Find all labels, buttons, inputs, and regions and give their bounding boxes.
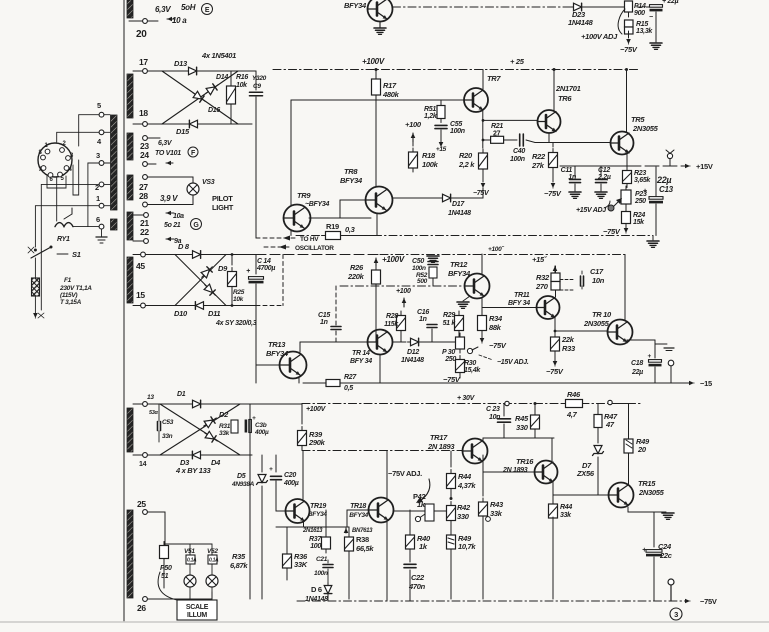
svg-text:1k: 1k bbox=[419, 542, 428, 551]
pin 26 bbox=[137, 597, 190, 613]
svg-text:100n: 100n bbox=[510, 156, 525, 163]
transistor TR19 bbox=[286, 499, 328, 523]
svg-text:TO HV: TO HV bbox=[300, 236, 319, 243]
ground under top transistor bbox=[374, 22, 386, 35]
resistor R27 0.5 bbox=[322, 374, 357, 392]
svg-text:250: 250 bbox=[444, 356, 456, 363]
svg-text:115k: 115k bbox=[384, 321, 399, 328]
wire R34 to -75V bbox=[480, 331, 507, 350]
pin 20 terminal bbox=[129, 19, 158, 24]
terminal sec2 bbox=[668, 360, 674, 383]
svg-text:1n: 1n bbox=[320, 319, 328, 326]
svg-text:88k: 88k bbox=[489, 323, 502, 332]
svg-text:VS3: VS3 bbox=[202, 179, 215, 186]
svg-text:4N938A: 4N938A bbox=[231, 481, 255, 488]
svg-text:10n: 10n bbox=[489, 414, 500, 421]
wire TR7 collector up bbox=[482, 70, 484, 90]
transistor TR18 bbox=[349, 498, 393, 523]
svg-text:6,3V: 6,3V bbox=[158, 140, 173, 147]
connector hatched strip 2 bbox=[127, 74, 133, 118]
wire R24 to -75V bbox=[603, 224, 628, 236]
svg-text:D15: D15 bbox=[176, 127, 190, 136]
svg-text:C40: C40 bbox=[513, 148, 525, 155]
svg-text:900: 900 bbox=[634, 10, 645, 17]
svg-text:18: 18 bbox=[139, 108, 148, 118]
svg-text:P50: P50 bbox=[160, 565, 172, 572]
transistor TR8 bbox=[340, 167, 393, 214]
transistor TR16 bbox=[502, 457, 558, 484]
diode D14 bbox=[204, 74, 229, 96]
svg-text:14: 14 bbox=[139, 461, 147, 468]
svg-text:TR7: TR7 bbox=[487, 74, 501, 83]
svg-text:R30: R30 bbox=[464, 360, 476, 367]
svg-text:230V T1,1A: 230V T1,1A bbox=[59, 285, 92, 292]
wire TR9 emitter bbox=[291, 230, 325, 236]
svg-text:33n: 33n bbox=[162, 433, 173, 440]
svg-text:P23: P23 bbox=[635, 191, 647, 198]
svg-text:+100ˇ: +100ˇ bbox=[488, 245, 504, 253]
svg-text:1,2k: 1,2k bbox=[424, 113, 438, 120]
svg-text:TR12: TR12 bbox=[450, 260, 468, 269]
wire lamps join bbox=[190, 592, 212, 599]
wire sec3 links bbox=[304, 521, 388, 601]
svg-text:13: 13 bbox=[147, 394, 154, 401]
label 2N labels bbox=[302, 528, 373, 534]
svg-text:TR8: TR8 bbox=[344, 167, 358, 176]
TO HV arrow bbox=[256, 236, 319, 244]
resistor R15 13.3k bbox=[625, 20, 654, 35]
svg-text:G: G bbox=[193, 222, 199, 229]
transistor TR12 bbox=[448, 260, 490, 299]
terminal pins 1-6 bbox=[95, 101, 110, 208]
label +25V bbox=[510, 57, 525, 66]
svg-text:13,3k: 13,3k bbox=[636, 28, 653, 35]
svg-text:R42: R42 bbox=[457, 503, 471, 512]
+15V output wire bbox=[627, 162, 713, 171]
transistor TR17 bbox=[427, 433, 488, 464]
svg-text:S1: S1 bbox=[72, 250, 81, 259]
ground sec1 rail bbox=[647, 236, 659, 248]
section3 top rail bbox=[302, 403, 640, 405]
svg-text:100n: 100n bbox=[314, 570, 328, 577]
svg-text:C 14: C 14 bbox=[257, 258, 271, 265]
wire P14 to R15 bbox=[628, 12, 630, 17]
transistor TR5 bbox=[611, 115, 659, 155]
bridge3 diagonal b bbox=[160, 404, 240, 455]
svg-text:−75V: −75V bbox=[700, 597, 717, 606]
svg-text:4x 1N5401: 4x 1N5401 bbox=[201, 51, 236, 60]
svg-text:TO V101: TO V101 bbox=[155, 150, 181, 157]
wire TR18 base bbox=[347, 510, 369, 527]
wire out node bbox=[560, 165, 627, 167]
transistor TR11 bbox=[482, 292, 560, 319]
zener D7 bbox=[576, 446, 604, 496]
svg-text:BFY 34: BFY 34 bbox=[508, 300, 530, 307]
wire top rail to D23 bbox=[393, 6, 572, 8]
svg-text:D 6: D 6 bbox=[311, 585, 322, 594]
resistor R23 3.65k bbox=[623, 166, 652, 188]
svg-text:26: 26 bbox=[137, 603, 146, 613]
cap C14 4700u bbox=[246, 255, 275, 306]
label +100V arrow sec2 bbox=[396, 288, 411, 307]
svg-text:+100: +100 bbox=[405, 120, 422, 129]
label -15V ADJ bbox=[479, 355, 529, 366]
svg-text:R35: R35 bbox=[232, 552, 246, 561]
resistor R18 100k bbox=[409, 142, 439, 172]
svg-text:330: 330 bbox=[457, 512, 470, 521]
svg-text:T 3,15A: T 3,15A bbox=[60, 299, 82, 306]
section2 top rail bbox=[256, 254, 625, 256]
svg-text:1N4148: 1N4148 bbox=[401, 357, 424, 364]
svg-text:R45: R45 bbox=[515, 414, 529, 423]
svg-text:+ 25: + 25 bbox=[510, 57, 525, 66]
transistor TR14 bbox=[350, 330, 393, 366]
wire R15 to -75V arrow bbox=[626, 31, 631, 44]
svg-text:1N4148: 1N4148 bbox=[448, 210, 471, 217]
svg-text:22: 22 bbox=[140, 227, 149, 237]
svg-text:24: 24 bbox=[140, 150, 149, 160]
lamp top wire bbox=[164, 543, 212, 545]
pot P23 250 bbox=[608, 186, 647, 211]
svg-text:270: 270 bbox=[535, 282, 549, 291]
resistor R19 0.3 bbox=[322, 222, 356, 240]
oscillator arrow bbox=[264, 245, 334, 253]
svg-text:E: E bbox=[205, 7, 210, 14]
svg-text:10 a: 10 a bbox=[172, 16, 187, 25]
svg-text:−75V: −75V bbox=[603, 227, 621, 236]
svg-text:TR11: TR11 bbox=[514, 292, 530, 299]
cap C18 22u bbox=[631, 353, 662, 383]
pot P14 900 bbox=[625, 1, 646, 17]
cap C21b 100n bbox=[314, 556, 333, 582]
transistor TR13 bbox=[266, 340, 307, 379]
resistor R20 2.2k bbox=[458, 111, 488, 173]
resistor R22 27k bbox=[531, 149, 558, 172]
svg-text:~BFY34: ~BFY34 bbox=[305, 201, 329, 208]
bridge3 to rail wire bbox=[250, 403, 302, 405]
svg-text:TR9: TR9 bbox=[297, 191, 311, 200]
wire sec3 mid bbox=[450, 530, 452, 533]
resistor R51 1.2k bbox=[424, 102, 445, 123]
transistor TR9 bbox=[284, 191, 330, 232]
connector hatched strip 6 bbox=[127, 257, 133, 303]
svg-text:4x SY 320/0,3: 4x SY 320/0,3 bbox=[215, 320, 257, 327]
cap C23 10n bbox=[486, 401, 537, 438]
wire R26 down bbox=[375, 284, 377, 342]
svg-text:33k: 33k bbox=[490, 509, 503, 518]
svg-text:TR19: TR19 bbox=[310, 503, 326, 510]
svg-text:2,2 k: 2,2 k bbox=[458, 160, 475, 169]
cap C9 bbox=[250, 71, 267, 96]
svg-text:BN7613: BN7613 bbox=[352, 528, 373, 534]
pin 17 bbox=[133, 57, 148, 73]
svg-text:BFY34: BFY34 bbox=[340, 176, 363, 185]
cap C12 2.2u bbox=[595, 166, 611, 198]
svg-text:28: 28 bbox=[139, 191, 148, 201]
wire TR18 collector bbox=[386, 451, 388, 499]
resistor R44b 33k bbox=[549, 495, 573, 599]
label +30V bbox=[306, 395, 476, 413]
cap C13 22u bbox=[643, 167, 674, 236]
svg-text:C12: C12 bbox=[598, 167, 610, 174]
label 4xBY133 bbox=[175, 466, 212, 475]
bridge2 diagonal a bbox=[175, 255, 226, 306]
svg-text:5oH: 5oH bbox=[181, 3, 196, 12]
wire TR5 base bbox=[526, 133, 611, 143]
svg-text:45: 45 bbox=[136, 261, 145, 271]
resistor R46 4.7 bbox=[562, 390, 629, 439]
diode D10 bbox=[174, 302, 207, 318]
transistor TR10 bbox=[583, 310, 633, 345]
svg-text:100n: 100n bbox=[412, 265, 426, 272]
svg-text:+: + bbox=[252, 415, 256, 422]
wire TR10 emitter bbox=[627, 340, 674, 358]
svg-text:22µ: 22µ bbox=[631, 369, 643, 376]
resistor R47 47 bbox=[594, 404, 618, 444]
svg-text:−: − bbox=[649, 14, 653, 21]
resistor R42 330 bbox=[447, 497, 471, 533]
svg-text:R34: R34 bbox=[489, 314, 503, 323]
resistor R50 51 bbox=[160, 542, 172, 589]
connector hatched strip 8 bbox=[127, 510, 133, 598]
resistor R21 27 bbox=[483, 123, 504, 143]
wire TR6 emitter to R22 bbox=[552, 143, 554, 148]
svg-text:BFY34: BFY34 bbox=[448, 269, 471, 278]
connector hatched strip 5 bbox=[127, 212, 133, 240]
TR12 base rail bbox=[340, 285, 464, 287]
label VS3 lamp bbox=[187, 179, 215, 195]
wire TR19 collector bbox=[302, 451, 304, 500]
svg-text:P 30: P 30 bbox=[442, 349, 455, 356]
svg-text:+: + bbox=[648, 353, 652, 360]
svg-text:3,65k: 3,65k bbox=[634, 177, 651, 184]
wire D23 to P14 bbox=[585, 6, 624, 8]
wire TR15 emitter bbox=[628, 507, 654, 547]
wire R19 to TR8 bbox=[309, 213, 379, 236]
cap C55 100n bbox=[435, 121, 465, 135]
wire TR13 emitter bbox=[298, 377, 300, 383]
label -75V top bbox=[620, 45, 638, 54]
svg-text:22µ: 22µ bbox=[656, 175, 671, 185]
svg-text:22k: 22k bbox=[561, 335, 575, 344]
lamp V52 bbox=[206, 544, 219, 592]
connector hatched strip 3 bbox=[127, 133, 133, 160]
wire TR8 base bbox=[340, 200, 366, 218]
resistor R38 66.5k bbox=[345, 527, 375, 599]
diode D15 bbox=[176, 120, 201, 136]
svg-text:TR 14: TR 14 bbox=[352, 350, 370, 357]
wire TR6 collector bbox=[553, 68, 556, 111]
transistor TR16b wire bbox=[379, 355, 381, 384]
svg-text:5o 21: 5o 21 bbox=[164, 222, 181, 229]
svg-text:+100: +100 bbox=[396, 288, 411, 295]
svg-text:TR18: TR18 bbox=[350, 503, 366, 510]
diode D2 bbox=[202, 410, 229, 429]
label 4x SY320 bbox=[215, 320, 257, 327]
resistor R31 33k bbox=[219, 420, 238, 437]
svg-text:BFY34: BFY34 bbox=[344, 1, 367, 10]
svg-text:R43: R43 bbox=[490, 500, 504, 509]
wire TR13 base bbox=[256, 306, 280, 384]
svg-text:480k: 480k bbox=[382, 90, 400, 99]
svg-text:LIGHT: LIGHT bbox=[212, 203, 234, 212]
svg-text:47: 47 bbox=[605, 420, 615, 429]
bridge1 diagonal b bbox=[162, 71, 238, 124]
svg-text:220k: 220k bbox=[347, 272, 365, 281]
svg-text:−75V: −75V bbox=[473, 190, 490, 197]
svg-text:1n: 1n bbox=[568, 174, 576, 181]
label +15V sec2 bbox=[532, 255, 557, 274]
transistor TR15 bbox=[609, 479, 665, 508]
diode D13 bbox=[174, 59, 201, 75]
diode D11 bbox=[202, 282, 220, 318]
wire TR9 base column bbox=[290, 100, 292, 206]
svg-text:R44: R44 bbox=[560, 504, 572, 511]
svg-text:C 23: C 23 bbox=[486, 406, 500, 413]
svg-text:22c: 22c bbox=[659, 551, 673, 560]
svg-text:C11: C11 bbox=[561, 167, 573, 174]
cap C24 22u bbox=[642, 542, 673, 601]
bridge3 diagonal a bbox=[160, 404, 240, 455]
bottom scan line bbox=[0, 621, 769, 623]
svg-text:2N 1893: 2N 1893 bbox=[427, 442, 455, 451]
wire TR16 collector bbox=[551, 438, 553, 461]
svg-text:+ 22µ: + 22µ bbox=[662, 0, 679, 5]
pin 18 bbox=[133, 108, 148, 126]
svg-text:25: 25 bbox=[137, 499, 146, 509]
svg-text:33k: 33k bbox=[560, 512, 572, 519]
label +15V ADJ bbox=[576, 201, 610, 214]
bridge2 top wire bbox=[145, 253, 256, 256]
terminal sec3 bbox=[668, 579, 674, 601]
wire TR11 col emi bbox=[554, 290, 557, 337]
svg-text:2,2µ: 2,2µ bbox=[597, 174, 611, 181]
svg-text:F1: F1 bbox=[64, 277, 72, 284]
svg-text:R27: R27 bbox=[344, 374, 357, 381]
+100V rail bbox=[273, 69, 640, 71]
label +100V rail bbox=[362, 57, 385, 66]
transistor TR6 bbox=[538, 84, 581, 133]
bridge2 diagonal b bbox=[175, 255, 226, 306]
ground top right bbox=[650, 12, 662, 49]
svg-text:2N 1893: 2N 1893 bbox=[502, 467, 528, 474]
svg-text:6: 6 bbox=[96, 215, 100, 224]
svg-text:+15V: +15V bbox=[696, 162, 713, 171]
diode D17 bbox=[393, 188, 483, 217]
pin 14 bbox=[133, 453, 147, 468]
wire R51 top bbox=[440, 100, 442, 106]
label -75V sec1a bbox=[473, 190, 490, 197]
svg-text:BFY34: BFY34 bbox=[266, 349, 289, 358]
section3 left vertical bbox=[249, 404, 251, 599]
resistor R52 500 bbox=[416, 267, 437, 286]
svg-text:TR16: TR16 bbox=[516, 457, 534, 466]
svg-text:ZX56: ZX56 bbox=[576, 469, 595, 478]
label R35 6.87k bbox=[230, 552, 248, 570]
svg-text:1n: 1n bbox=[419, 316, 427, 323]
svg-text:R17: R17 bbox=[383, 81, 397, 90]
svg-text:100k: 100k bbox=[422, 160, 439, 169]
connector hatched strip 7 bbox=[127, 408, 133, 452]
svg-text:D2: D2 bbox=[219, 410, 229, 419]
resistor R32 270 bbox=[535, 266, 560, 291]
svg-text:(115V): (115V) bbox=[60, 292, 77, 299]
label 10a 5a 21 G 9a bbox=[164, 211, 202, 245]
svg-text:R32: R32 bbox=[536, 273, 550, 282]
svg-text:BFY34: BFY34 bbox=[349, 512, 368, 519]
fuse F1 bbox=[32, 250, 93, 318]
svg-text:66,5k: 66,5k bbox=[356, 544, 374, 553]
switch S1 bbox=[28, 246, 81, 260]
svg-text:−75V: −75V bbox=[546, 367, 564, 376]
svg-text:C13: C13 bbox=[659, 185, 674, 194]
resistor R33 22k bbox=[551, 333, 576, 355]
svg-text:10k: 10k bbox=[233, 296, 244, 303]
svg-text:400µ: 400µ bbox=[283, 480, 299, 487]
diode D12 bbox=[393, 338, 456, 364]
svg-text:4,7: 4,7 bbox=[566, 410, 578, 419]
svg-text:C9: C9 bbox=[253, 83, 261, 90]
sec3 node wire bbox=[483, 438, 554, 442]
label 4x 1N5401 bbox=[201, 51, 236, 60]
resistor R44 4.37k bbox=[447, 451, 477, 498]
svg-text:ILLUM: ILLUM bbox=[187, 612, 207, 619]
svg-text:R26: R26 bbox=[350, 263, 364, 272]
bridge1 bottom wire bbox=[147, 123, 252, 125]
bridge2 bottom wire bbox=[145, 304, 256, 307]
label +100V sec2 bbox=[374, 255, 405, 266]
svg-text:R44: R44 bbox=[458, 472, 472, 481]
svg-text:TR 10: TR 10 bbox=[592, 310, 612, 319]
svg-text:R15: R15 bbox=[636, 21, 648, 28]
svg-text:20: 20 bbox=[136, 29, 147, 40]
connector hatched strip 4 bbox=[127, 175, 133, 200]
diode D1 bbox=[177, 391, 205, 408]
cap 22u top right bbox=[637, 0, 679, 21]
label 3.9V bbox=[160, 194, 178, 203]
resistor R16 10k bbox=[227, 71, 249, 124]
pin 45 bbox=[133, 252, 145, 271]
label -75V ADJ bbox=[388, 469, 430, 503]
svg-text:SCALE: SCALE bbox=[186, 604, 209, 611]
svg-text:100: 100 bbox=[310, 543, 321, 550]
resistor R28 115k bbox=[384, 311, 405, 342]
svg-text:1N4148: 1N4148 bbox=[568, 18, 594, 27]
tube socket bbox=[38, 143, 72, 177]
svg-text:D17: D17 bbox=[452, 201, 465, 208]
transistor BFY34 top bbox=[344, 0, 393, 22]
svg-text:R19: R19 bbox=[326, 222, 339, 231]
cap C22 470n bbox=[404, 558, 426, 601]
svg-text:BFY 34: BFY 34 bbox=[350, 358, 372, 365]
svg-text:C55: C55 bbox=[450, 121, 462, 128]
svg-text:C50: C50 bbox=[412, 258, 424, 265]
wire R20 to -75V bbox=[481, 169, 486, 188]
wire C9 down to HV line bbox=[255, 97, 257, 238]
svg-text:D5: D5 bbox=[237, 473, 246, 480]
pilot loop bbox=[139, 175, 193, 207]
svg-text:27k: 27k bbox=[531, 161, 545, 170]
pot P42 1k bbox=[413, 492, 447, 522]
label circled 3 bbox=[670, 608, 682, 620]
svg-text:R23: R23 bbox=[634, 170, 646, 177]
diode D9 bbox=[199, 264, 228, 280]
svg-text:2N1613: 2N1613 bbox=[302, 528, 323, 534]
svg-text:250: 250 bbox=[634, 198, 646, 205]
diode D8 bbox=[178, 242, 205, 258]
diode D4 bbox=[203, 430, 221, 467]
pin 25 bbox=[137, 499, 165, 545]
